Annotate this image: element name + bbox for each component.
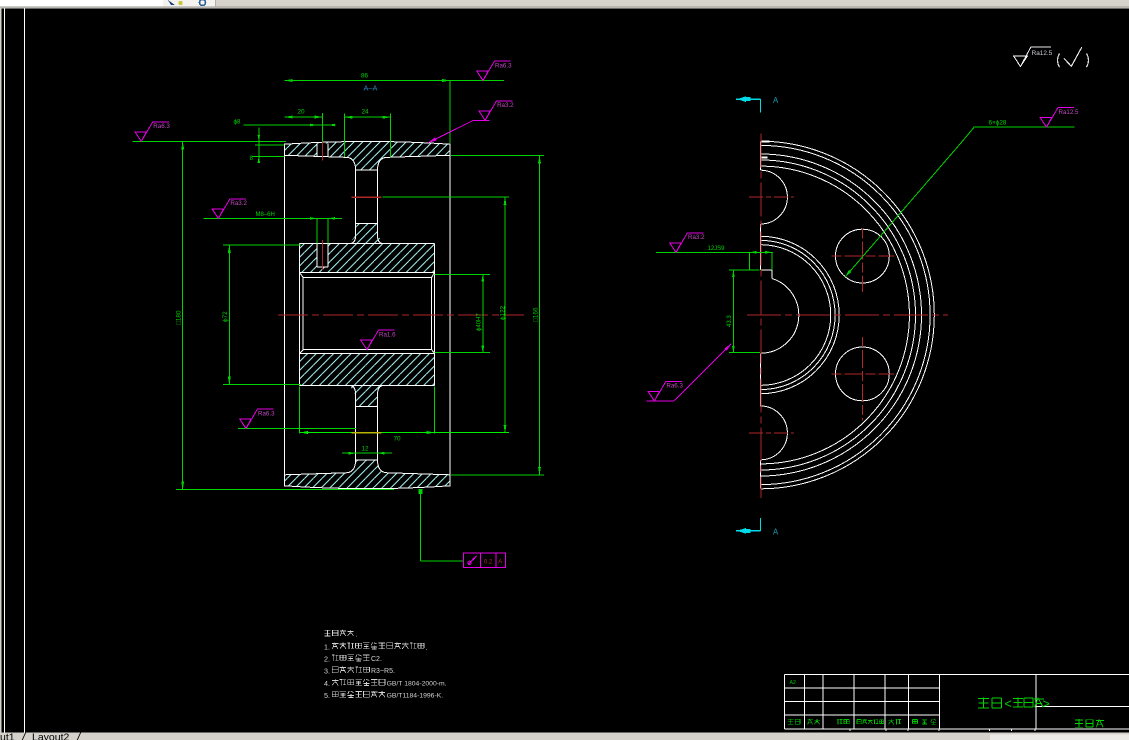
svg-text:12: 12 <box>362 445 370 452</box>
svg-text:70: 70 <box>394 436 402 443</box>
bottom layout tab bar <box>0 733 1129 740</box>
bore outer bottom line <box>300 352 435 354</box>
dim 20 <box>285 116 323 118</box>
svg-text:Ra12.5: Ra12.5 <box>1032 50 1053 57</box>
svg-text:0.2: 0.2 <box>484 559 493 565</box>
surface symbol Ra6.3 on 86 dim <box>477 71 489 81</box>
surface symbol Ra3.2 keyway <box>670 243 682 253</box>
surface symbol Ra3.2 at M8 <box>212 209 224 219</box>
keyway width dim 12JS9 <box>656 251 773 253</box>
svg-text:43.3: 43.3 <box>727 315 733 327</box>
upper-right hole centerlines <box>832 255 894 257</box>
ext line short y145 <box>255 144 285 146</box>
svg-text:.: . <box>355 632 357 639</box>
web upper fillets and lines <box>348 157 356 243</box>
svg-text:GB/T 1804-2000-m.: GB/T 1804-2000-m. <box>387 681 447 688</box>
hatch bottom rim band <box>285 473 450 489</box>
dim 86 top <box>285 80 505 82</box>
svg-text:Ra3.2: Ra3.2 <box>230 200 247 207</box>
svg-text:ϕ40H7: ϕ40H7 <box>477 313 483 331</box>
svg-text:Ra6.3: Ra6.3 <box>153 123 170 130</box>
svg-text:6×ϕ28: 6×ϕ28 <box>989 119 1007 126</box>
dim phi40H7 vertical <box>434 273 490 275</box>
full hole lower right <box>836 347 890 401</box>
svg-text:>: > <box>1043 697 1050 711</box>
right view horizontal centerline <box>747 314 948 316</box>
right view edge segments <box>759 142 761 171</box>
svg-text:2.: 2. <box>324 655 330 664</box>
svg-text:R3~R5.: R3~R5. <box>371 668 395 675</box>
svg-text:3.: 3. <box>324 667 330 676</box>
M8 centerline hub <box>322 240 324 270</box>
svg-text:ϕ8: ϕ8 <box>234 118 241 125</box>
svg-text:Ra6.3: Ra6.3 <box>258 410 275 417</box>
upper hole centerline red <box>352 196 382 198</box>
rim inner edge bottom <box>285 473 348 475</box>
svg-text:ϕ72: ϕ72 <box>222 311 229 322</box>
technical requirements text block <box>324 630 353 636</box>
M8 hole in rim <box>316 144 318 156</box>
title block bottom ticks <box>849 729 851 731</box>
keyway step <box>760 270 772 278</box>
surface symbol Ra12.5 on leader <box>1040 118 1052 128</box>
dim 166 vertical <box>451 154 544 156</box>
web hole edges upper <box>356 169 378 171</box>
lower hole centerline red <box>352 432 382 434</box>
svg-text:Ra3.2: Ra3.2 <box>688 234 705 241</box>
svg-text:□166: □166 <box>532 307 539 322</box>
svg-text:12JS9: 12JS9 <box>708 246 726 252</box>
web lower fillets and lines <box>348 386 356 473</box>
right view rim arcs <box>761 141 935 489</box>
hatch top rim band <box>285 141 450 157</box>
bottom hole centerline <box>749 432 794 434</box>
dim 180 vertical <box>182 141 184 489</box>
svg-text:<: < <box>1005 697 1012 711</box>
svg-text:5.: 5. <box>324 691 330 700</box>
svg-text:A: A <box>773 96 779 105</box>
keyway bottom line in bore <box>300 272 435 274</box>
dim 12 web <box>342 452 392 454</box>
dim 70 and ext to phi122 <box>299 387 301 434</box>
bottom lightening hole half <box>761 406 788 460</box>
hatch lower hump <box>348 460 385 473</box>
bore chamfer verticals <box>302 277 304 349</box>
dim phi8 leader <box>244 124 336 126</box>
ext line top-left long <box>133 140 286 142</box>
svg-text:Ra12.5: Ra12.5 <box>1059 109 1080 116</box>
right view vertical centerline <box>760 134 762 499</box>
dim 8 rim thickness <box>258 127 260 160</box>
hatch hub lower band <box>300 353 435 385</box>
surface symbol Ra6.3 top-left <box>135 132 147 142</box>
dim phi72 vertical <box>228 245 230 385</box>
leader 6xphi28 <box>845 127 1075 277</box>
section arrow A top <box>736 98 760 100</box>
left view outer outline <box>285 141 450 488</box>
svg-text:24: 24 <box>362 109 370 116</box>
dim phi122 vertical <box>504 197 506 433</box>
svg-text:20: 20 <box>298 109 306 116</box>
surface symbol Ra6.3 lower-left <box>238 428 356 430</box>
hatch hub upper band <box>300 244 435 273</box>
bore arc with keyway <box>761 279 799 354</box>
lower-right hole centerlines <box>832 373 894 375</box>
top toolbar remnant <box>0 0 1129 8</box>
svg-text:A: A <box>498 559 502 565</box>
hatch lower web <box>350 386 384 407</box>
svg-text:ϕ122: ϕ122 <box>500 305 507 320</box>
svg-text:A–A: A–A <box>364 84 378 93</box>
M8 hole in hub <box>316 244 318 267</box>
M8 centerline rim <box>322 136 324 160</box>
bore chamfer diagonals <box>300 273 304 278</box>
surface symbol Ra3.2 leader top right <box>428 137 437 143</box>
bore bottom edge <box>303 349 431 351</box>
title block grid <box>785 673 940 675</box>
svg-text:Ra1.6: Ra1.6 <box>379 331 396 338</box>
left sheet border lines <box>0 8 1 732</box>
keyway depth dim 43.3 <box>729 269 760 271</box>
svg-text:.: . <box>426 645 428 652</box>
right view hub arcs <box>761 236 840 393</box>
hatch top hump and web <box>348 157 385 170</box>
section arrow A bottom <box>736 530 760 532</box>
left view horizontal centerline <box>278 314 524 316</box>
toolbar icons <box>168 0 175 5</box>
svg-text:Ra6.3: Ra6.3 <box>495 62 512 69</box>
title block small labels <box>788 719 800 725</box>
datum leader and runout frame <box>419 489 423 494</box>
full hole upper right <box>836 229 890 283</box>
svg-text:C2.: C2. <box>371 656 382 663</box>
top lightening hole half <box>761 170 788 224</box>
bore top edge <box>303 276 431 278</box>
hub outline <box>300 243 435 245</box>
svg-text:1.: 1. <box>324 643 330 652</box>
overall surface finish Ra12.5 top right white <box>1014 56 1027 66</box>
web hole edges lower <box>356 406 378 408</box>
material label <box>978 698 1001 709</box>
svg-text:A: A <box>773 528 779 537</box>
svg-text:Ra6.3: Ra6.3 <box>666 383 683 390</box>
title block right area <box>939 673 1129 675</box>
svg-text:M8–6H: M8–6H <box>256 212 275 218</box>
dim 24 <box>345 116 391 118</box>
svg-text:86: 86 <box>361 73 369 80</box>
svg-text:A2: A2 <box>790 680 796 686</box>
surface symbol Ra6.3 keyway leader <box>646 400 674 402</box>
hatch web below hole to hub <box>350 224 384 244</box>
ext line hole center upper <box>383 196 509 198</box>
rim inner edge top <box>285 155 348 157</box>
svg-text:GB/T1184-1996-K.: GB/T1184-1996-K. <box>387 693 444 700</box>
svg-text:Layout2: Layout2 <box>32 732 70 740</box>
svg-text:4.: 4. <box>324 679 330 688</box>
svg-text:ut1: ut1 <box>0 732 15 740</box>
surface symbol Ra1.6 in bore <box>361 340 373 350</box>
top hole centerline <box>749 196 794 198</box>
part name pulley <box>1075 719 1104 727</box>
svg-text:Ra3.2: Ra3.2 <box>497 102 514 109</box>
svg-text:□180: □180 <box>176 310 183 325</box>
M8-6H dim and leader <box>204 217 342 219</box>
